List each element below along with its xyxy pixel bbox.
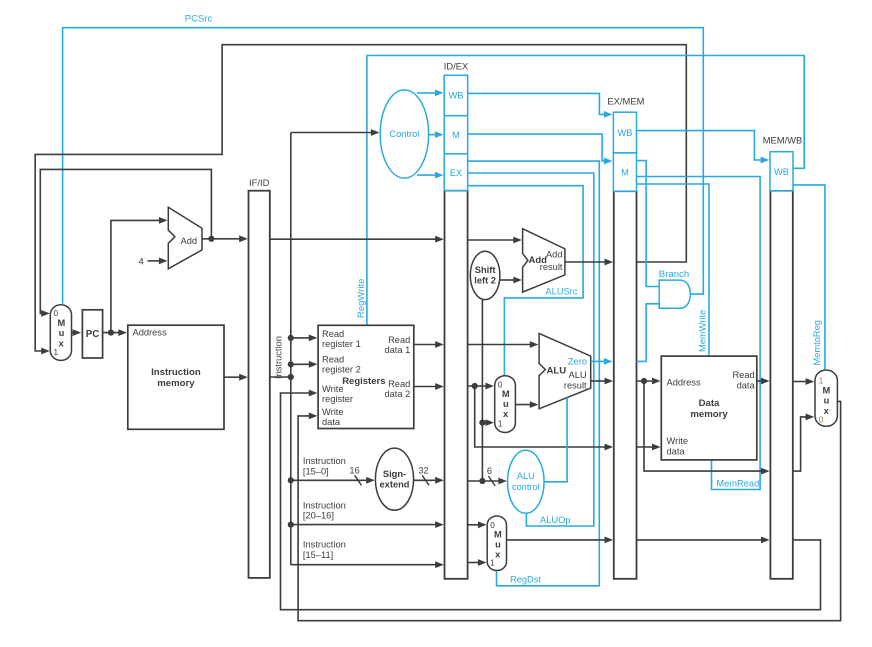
svg-text:MemWrite: MemWrite bbox=[698, 310, 708, 352]
wire register number from EX/MEM to MEM/WB bbox=[637, 537, 770, 544]
svg-text:M: M bbox=[494, 529, 502, 539]
ALU bbox=[539, 333, 591, 408]
svg-text:RegWrite: RegWrite bbox=[356, 279, 367, 318]
wire Control to ID/EX M bbox=[429, 131, 444, 138]
wire RegDst mux output to EX/MEM bbox=[507, 537, 614, 544]
svg-text:MemRead: MemRead bbox=[716, 478, 759, 488]
wire instruction memory output to IF/ID bbox=[224, 374, 248, 381]
wire Read data 2 from ID/EX to ALUSrc mux bbox=[468, 383, 494, 390]
mux M2 (ALUSrc mux) bbox=[495, 376, 516, 433]
AND gate (branch and zero) bbox=[659, 280, 690, 308]
control unit Control bbox=[380, 90, 428, 178]
wire Control to ID/EX EX bbox=[417, 172, 444, 179]
wire instruction to Read register 1 bbox=[291, 335, 318, 342]
svg-text:extend: extend bbox=[380, 480, 410, 490]
pipeline register MEM/WB bbox=[770, 191, 792, 579]
svg-text:Instruction: Instruction bbox=[303, 540, 346, 550]
svg-text:Zero: Zero bbox=[568, 356, 587, 366]
shifter Shift left 2 bbox=[470, 251, 500, 299]
wire RegWrite from MEM/WB.WB to Registers write enable bbox=[367, 56, 804, 325]
svg-text:Address: Address bbox=[667, 377, 701, 387]
svg-text:u: u bbox=[503, 399, 509, 409]
svg-text:MEM/WB: MEM/WB bbox=[763, 135, 803, 146]
wire Read data 2 to ID/EX bbox=[414, 383, 444, 390]
adder Add (branch target) bbox=[523, 229, 565, 292]
wire EX/MEM WB to MEM/WB WB bbox=[637, 131, 770, 164]
wire PC+4 from Add output back to PC mux input 0 bbox=[40, 169, 211, 316]
wire ALU result from MEM/WB to final mux input 0 bbox=[793, 414, 814, 472]
wire ALUOp control from ID/EX EX to ALU control bbox=[468, 173, 594, 526]
svg-text:Read: Read bbox=[732, 370, 754, 380]
svg-text:Instruction: Instruction bbox=[303, 500, 346, 510]
junction immediate bbox=[479, 478, 485, 484]
wire read data from data memory to MEM/WB bbox=[757, 378, 770, 385]
svg-text:Read: Read bbox=[322, 329, 344, 339]
wire read data from MEM/WB to final mux input 1 bbox=[793, 378, 814, 385]
svg-text:M: M bbox=[823, 385, 831, 395]
svg-text:4: 4 bbox=[139, 257, 144, 268]
svg-text:data: data bbox=[322, 417, 341, 427]
svg-text:WB: WB bbox=[449, 91, 464, 101]
pipeline register IF/ID bbox=[249, 191, 270, 578]
block instruction memory bbox=[128, 325, 224, 429]
svg-text:1: 1 bbox=[54, 348, 59, 357]
junction on Add output bbox=[208, 236, 214, 242]
wire ALU control to ALU bbox=[544, 398, 567, 482]
wire immediate up to Shift left 2 bbox=[481, 300, 483, 481]
svg-text:Write: Write bbox=[322, 384, 344, 394]
svg-text:[15–0]: [15–0] bbox=[303, 466, 329, 476]
wire PC+4 from IF/ID to ID/EX bbox=[270, 236, 444, 243]
svg-text:Branch: Branch bbox=[659, 269, 689, 280]
svg-text:x: x bbox=[59, 338, 65, 348]
wire MemtoReg control from MEM/WB to final mux bbox=[793, 185, 825, 370]
svg-text:u: u bbox=[495, 540, 501, 550]
block Registers bbox=[318, 325, 414, 428]
junction instruction to sign-extend bbox=[288, 477, 294, 483]
mux M1 (PC source mux) bbox=[50, 305, 71, 361]
ID/EX EX control box bbox=[444, 154, 468, 191]
svg-text:Read: Read bbox=[388, 379, 410, 389]
svg-text:EX: EX bbox=[450, 168, 462, 178]
svg-text:WB: WB bbox=[774, 167, 789, 177]
svg-text:M: M bbox=[621, 168, 629, 178]
svg-text:left 2: left 2 bbox=[474, 276, 496, 286]
MEM/WB WB control box bbox=[770, 152, 793, 191]
svg-text:Add: Add bbox=[181, 236, 198, 246]
EX/MEM WB control box bbox=[613, 112, 636, 153]
svg-text:ALUOp: ALUOp bbox=[540, 515, 571, 525]
wire instruction [20-16] to ID/EX bbox=[291, 521, 444, 528]
svg-text:Data: Data bbox=[699, 398, 720, 409]
wire Add output to IF/ID bbox=[202, 235, 248, 242]
ID/EX WB control box bbox=[444, 75, 468, 115]
svg-text:Instruction: Instruction bbox=[274, 336, 284, 379]
control ALU control bbox=[508, 450, 545, 513]
wire instruction to Read register 2 bbox=[291, 361, 318, 368]
svg-text:Sign-: Sign- bbox=[383, 469, 406, 479]
wire instruction [20-16] from ID/EX to RegDst mux input 0 bbox=[468, 521, 487, 528]
svg-text:0: 0 bbox=[54, 309, 59, 318]
wire ALU result down to MEM/WB bbox=[644, 381, 770, 475]
svg-text:Add: Add bbox=[546, 250, 563, 260]
junction instruction to read register 2 bbox=[288, 361, 294, 367]
wire instruction [15-11] from ID/EX to RegDst mux input 1 bbox=[468, 559, 487, 566]
junction instruction to read register 1 bbox=[288, 335, 294, 341]
wire Read data 2 down to EX/MEM write data bbox=[475, 386, 613, 450]
wire MemWrite control from EX/MEM M to data memory bbox=[637, 184, 710, 355]
svg-text:16: 16 bbox=[349, 466, 359, 476]
svg-text:PCSrc: PCSrc bbox=[185, 14, 213, 25]
wire ALU result from EX/MEM to data memory address bbox=[637, 378, 661, 385]
wire ALUSrc mux output to ALU bbox=[515, 401, 538, 408]
svg-text:data: data bbox=[737, 380, 756, 390]
svg-text:1: 1 bbox=[498, 419, 503, 428]
svg-text:RegDst: RegDst bbox=[510, 574, 541, 584]
wire instruction distribution vertical bbox=[290, 133, 292, 565]
mux M3 (RegDst mux) bbox=[487, 516, 506, 571]
svg-text:WB: WB bbox=[618, 128, 633, 138]
wire immediate to ALUSrc mux input 1 bbox=[482, 419, 494, 426]
svg-text:register 2: register 2 bbox=[322, 364, 361, 374]
svg-text:Control: Control bbox=[389, 129, 419, 139]
wire PC value up to Add bbox=[111, 217, 168, 333]
wire PC+4 from ID/EX to branch Add bbox=[468, 237, 522, 244]
svg-text:Write: Write bbox=[667, 436, 689, 446]
svg-text:Registers: Registers bbox=[342, 376, 385, 387]
wire Sign-extend output to ID/EX bbox=[414, 477, 444, 484]
svg-text:register 1: register 1 bbox=[322, 339, 361, 349]
svg-text:result: result bbox=[564, 380, 587, 390]
svg-text:x: x bbox=[824, 406, 830, 416]
svg-text:data 1: data 1 bbox=[384, 345, 410, 355]
svg-text:M: M bbox=[58, 318, 66, 328]
svg-text:ALU: ALU bbox=[569, 370, 587, 380]
svg-text:6: 6 bbox=[487, 466, 492, 476]
wire ID/EX M to EX/MEM M bbox=[468, 134, 613, 164]
svg-text:memory: memory bbox=[690, 409, 728, 420]
svg-text:Address: Address bbox=[133, 328, 167, 338]
svg-text:[15–11]: [15–11] bbox=[303, 550, 333, 560]
wire ID/EX WB to EX/MEM WB bbox=[468, 93, 613, 117]
wire Control to ID/EX WB bbox=[417, 90, 444, 97]
svg-text:x: x bbox=[495, 550, 501, 560]
svg-text:IF/ID: IF/ID bbox=[249, 177, 270, 188]
bus width slash 16 bbox=[355, 475, 362, 485]
wire branch target address from EX/MEM back to PC mux input 1 bbox=[35, 45, 686, 355]
wire Shift left 2 to branch Add bbox=[500, 277, 522, 284]
svg-text:x: x bbox=[503, 409, 509, 419]
wire instruction [15-0] to Sign-extend bbox=[291, 477, 375, 484]
svg-text:Instruction: Instruction bbox=[303, 456, 346, 466]
EX/MEM M control box bbox=[613, 153, 636, 191]
junction instruction at IF/ID output bbox=[288, 374, 294, 380]
svg-text:data 2: data 2 bbox=[384, 389, 410, 399]
wire branch Add result to EX/MEM bbox=[565, 259, 613, 266]
wire instruction up to Control bbox=[291, 129, 380, 136]
wire Branch control from EX/MEM M to AND gate bbox=[637, 161, 660, 287]
svg-text:32: 32 bbox=[418, 466, 428, 476]
junction immediate to ALUSrc mux bbox=[479, 420, 485, 426]
svg-text:result: result bbox=[540, 262, 563, 272]
svg-text:1: 1 bbox=[819, 377, 824, 386]
ID/EX M control box bbox=[444, 116, 468, 154]
svg-text:Write: Write bbox=[322, 407, 344, 417]
junction on PC output bbox=[108, 330, 114, 336]
svg-text:[20–16]: [20–16] bbox=[303, 511, 334, 521]
pipeline register ID/EX bbox=[445, 191, 468, 579]
wire Read data 1 to ID/EX bbox=[414, 341, 444, 348]
svg-text:Read: Read bbox=[388, 335, 410, 345]
wire RegDst control from ID/EX EX to RegDst mux bbox=[468, 161, 600, 586]
svg-text:Read: Read bbox=[322, 354, 344, 364]
wire Read data 1 from ID/EX to ALU bbox=[468, 341, 539, 348]
svg-text:M: M bbox=[452, 130, 460, 140]
wire Zero from EX/MEM to AND gate bbox=[637, 304, 660, 362]
wire instruction from IF/ID to distribution node bbox=[270, 376, 291, 378]
wire ALUSrc control from ID/EX EX to ALUSrc mux bbox=[468, 186, 583, 375]
svg-text:register: register bbox=[322, 394, 353, 404]
svg-text:ALUSrc: ALUSrc bbox=[545, 286, 577, 296]
adder Add (PC+4) bbox=[168, 207, 202, 268]
svg-text:u: u bbox=[824, 396, 830, 406]
svg-text:control: control bbox=[512, 482, 540, 492]
register PC bbox=[82, 310, 102, 358]
block data memory bbox=[661, 356, 757, 460]
wire PC to instruction memory address bbox=[103, 329, 127, 336]
wire write data from EX/MEM to data memory bbox=[637, 444, 661, 451]
block Sign-extend bbox=[375, 448, 413, 510]
junction Read data 2 bbox=[472, 383, 478, 389]
junction ALU result at EX/MEM output bbox=[641, 378, 647, 384]
svg-text:u: u bbox=[59, 328, 65, 338]
bus width slash 6 bbox=[488, 476, 495, 486]
wire write register number from MEM/WB to Registers bbox=[281, 390, 821, 610]
svg-text:PC: PC bbox=[86, 329, 100, 340]
svg-text:EX/MEM: EX/MEM bbox=[607, 96, 644, 107]
svg-text:Shift: Shift bbox=[475, 265, 496, 275]
svg-text:MemtoReg: MemtoReg bbox=[812, 320, 822, 365]
wire PCSrc from branch AND gate to PC mux select bbox=[63, 28, 704, 304]
wire MemRead control from EX/MEM M to data memory bbox=[637, 177, 761, 490]
wire ALU result to EX/MEM bbox=[591, 378, 613, 385]
wire write data from MemtoReg mux to Registers bbox=[298, 401, 841, 620]
svg-text:ALU: ALU bbox=[547, 366, 567, 377]
svg-text:1: 1 bbox=[490, 559, 495, 568]
wire instruction [15-11] to ID/EX bbox=[291, 561, 444, 568]
svg-text:data: data bbox=[667, 447, 686, 457]
svg-text:M: M bbox=[502, 389, 510, 399]
wire PC mux output to PC bbox=[72, 329, 82, 336]
wire constant 4 into Add bbox=[148, 258, 168, 265]
junction instruction [20-16] bbox=[288, 522, 294, 528]
pipeline register EX/MEM bbox=[614, 191, 637, 579]
bus width slash 32 bbox=[422, 475, 429, 485]
wire sign-extended immediate from ID/EX to ALU control bbox=[468, 478, 507, 485]
svg-text:Instruction: Instruction bbox=[151, 367, 201, 378]
mux M4 (MemtoReg mux) bbox=[815, 370, 837, 426]
wire Zero flag to EX/MEM bbox=[591, 358, 613, 365]
svg-text:memory: memory bbox=[157, 378, 195, 389]
svg-text:0: 0 bbox=[819, 416, 824, 425]
svg-text:ID/EX: ID/EX bbox=[444, 61, 469, 72]
svg-text:ALU: ALU bbox=[517, 471, 535, 481]
